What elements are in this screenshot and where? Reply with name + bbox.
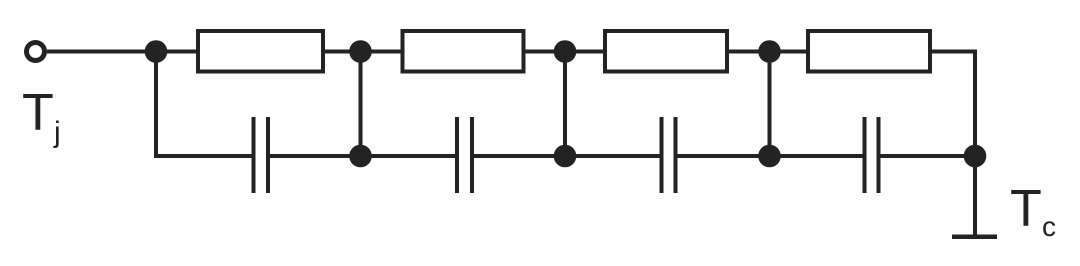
wire C4 to ground node [879, 154, 976, 158]
wire vertical node D [768, 52, 772, 157]
node C junction dot bottom [554, 145, 577, 168]
wire C1 to C2 [268, 154, 457, 158]
terminal Tj (input open circle) [27, 43, 45, 61]
node B junction dot top [349, 40, 372, 63]
ground [952, 234, 997, 239]
wire vertical node C [563, 52, 567, 157]
wire terminal to node A [47, 50, 198, 54]
resistor R2 [403, 31, 524, 72]
svg-text:T: T [22, 84, 54, 142]
svg-text:T: T [1010, 180, 1042, 238]
capacitor C4 [865, 117, 879, 193]
svg-text:j: j [53, 116, 61, 149]
wire node A down and right to C1 [156, 52, 254, 157]
node D junction dot bottom [758, 145, 781, 168]
wire R4 to right corner and down to ground [930, 52, 975, 237]
resistor R1 [198, 31, 323, 72]
node D junction dot top [758, 40, 781, 63]
capacitor C3 [662, 117, 676, 193]
wire C3 to C4 [676, 154, 865, 158]
resistor R4 [808, 31, 930, 72]
node B junction dot bottom [349, 145, 372, 168]
wire R3 to node D [727, 50, 810, 54]
resistor R3 [605, 31, 727, 72]
capacitor C2 [457, 117, 472, 193]
wire R2 to node C [523, 50, 607, 54]
node A junction dot [145, 40, 168, 63]
wire C2 to C3 [472, 154, 662, 158]
svg-text:c: c [1042, 211, 1056, 242]
node E junction dot (ground node) [964, 145, 987, 168]
wire vertical node B [359, 52, 363, 157]
capacitor C1 [254, 117, 269, 193]
wire R1 to node B [323, 50, 404, 54]
node C junction dot top [554, 40, 577, 63]
